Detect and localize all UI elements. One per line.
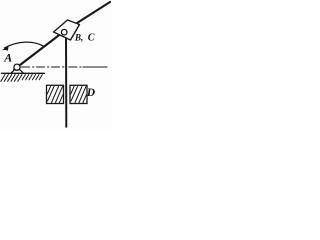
svg-text:B,: B, [74, 32, 83, 42]
rod AB [14, 2, 110, 69]
vertical rod [65, 34, 67, 127]
ground line [2, 72, 45, 74]
svg-text:A: A [3, 51, 12, 65]
arrowhead [2, 46, 9, 51]
dash-dot centerline [21, 66, 107, 68]
curved arrow arc [5, 42, 45, 48]
svg-text:D: D [86, 87, 96, 99]
svg-text:C: C [88, 32, 95, 43]
pivot support legs [11, 67, 17, 73]
guide block right [70, 85, 87, 103]
pivot circle A [14, 64, 20, 70]
guide block left [47, 85, 64, 103]
slider block B [54, 20, 80, 40]
pin circle C [61, 29, 67, 35]
ground hatching [1, 75, 43, 82]
